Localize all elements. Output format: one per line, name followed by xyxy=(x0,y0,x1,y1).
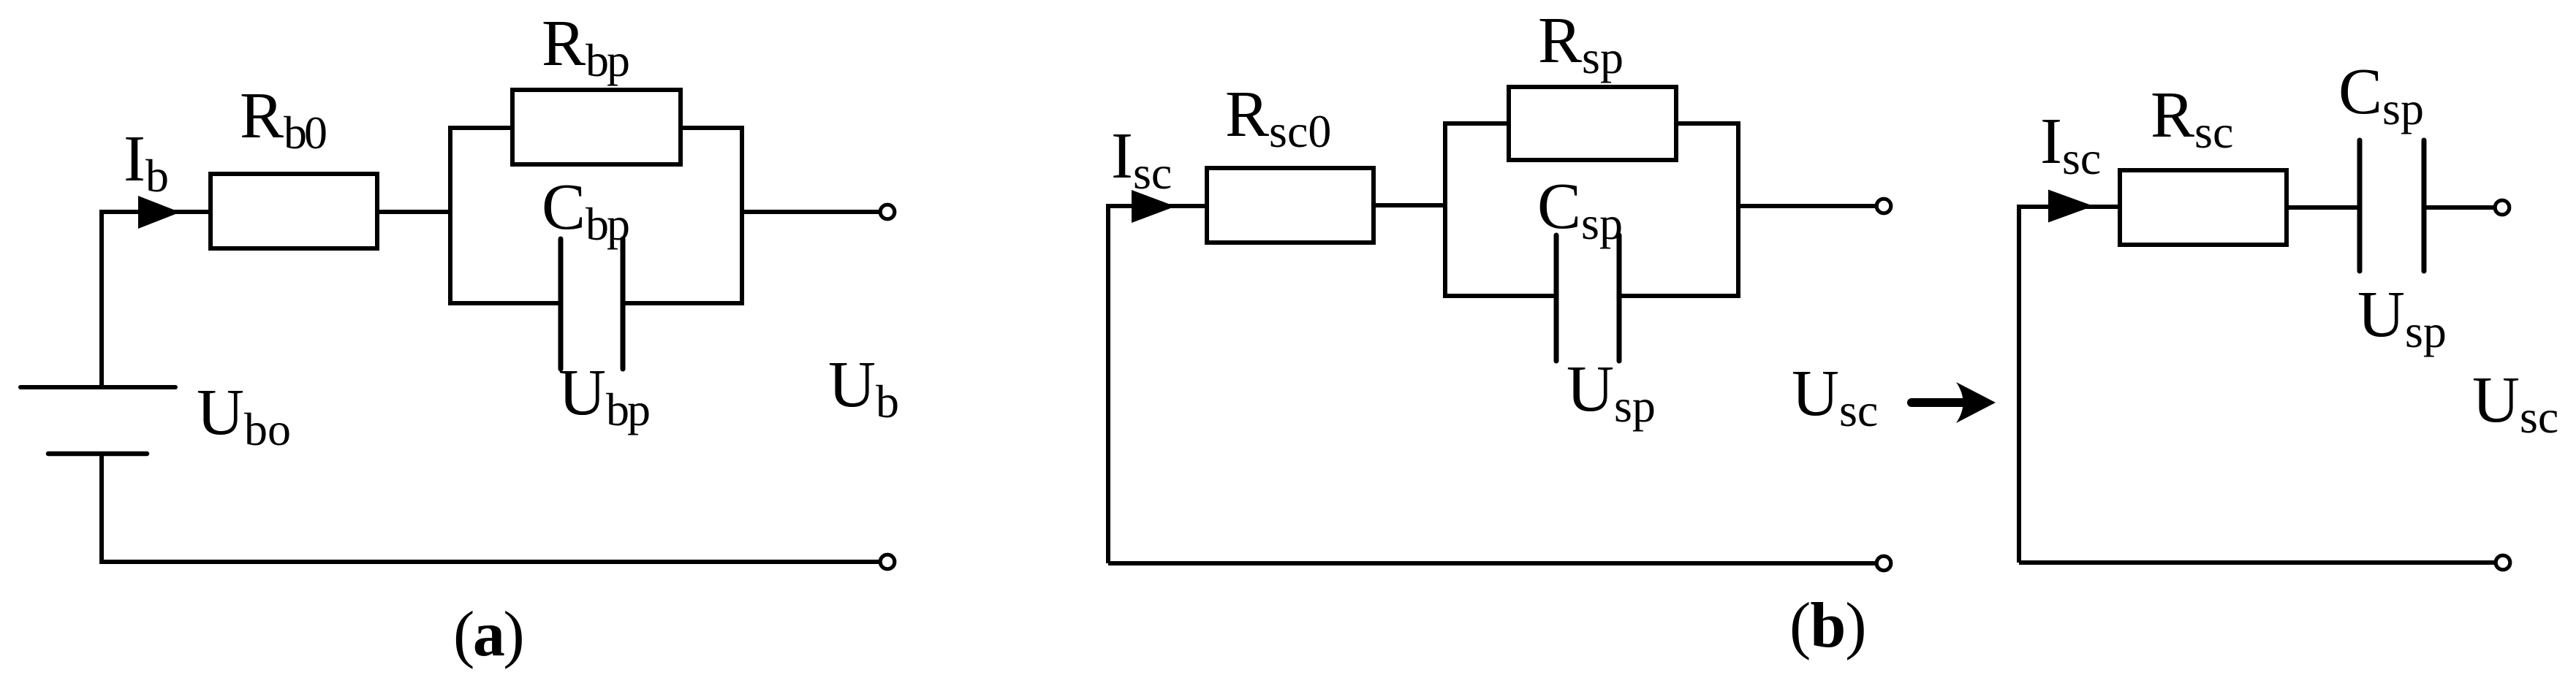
transform arrow between models xyxy=(1912,382,1996,423)
wire: bottom rail right (b) xyxy=(1619,294,1740,298)
node: block left vertical (b) xyxy=(1443,123,1447,296)
resistor Rbp xyxy=(512,90,681,164)
capacitor Csp left plate (b) xyxy=(1554,235,1559,361)
wire: bottom return (b) xyxy=(1108,561,1876,565)
wire: top rail left (b) xyxy=(1443,121,1509,126)
wire: top rail right segment xyxy=(681,126,744,130)
terminal node bottom (a) xyxy=(880,555,895,569)
resistor Rsc0 xyxy=(1207,168,1374,243)
wire: bottom rail left (b) xyxy=(1443,294,1556,298)
wire: bottom return (simplified) xyxy=(2019,560,2496,565)
node: parallel block right vertical xyxy=(740,128,744,303)
capacitor Cbp right plate xyxy=(621,239,626,369)
wire: left vertical (b) xyxy=(1108,206,1207,563)
svg-text:(b): (b) xyxy=(1789,590,1866,661)
terminal node bottom (simplified) xyxy=(2496,555,2510,570)
resistor Rsc xyxy=(2120,170,2287,245)
terminal node top (b) xyxy=(1876,199,1891,213)
wire: top rail right (b) xyxy=(1676,121,1740,126)
resistor Rb0 xyxy=(211,174,377,248)
capacitor Csp left plate (simplified) xyxy=(2357,140,2363,271)
terminal node bottom (b) xyxy=(1876,556,1891,571)
wire: bottom rail right segment xyxy=(623,301,744,305)
wire: bottom rail left segment xyxy=(448,301,561,305)
wire: Rb0 to parallel block xyxy=(377,210,450,214)
current arrow Ib xyxy=(138,196,181,229)
resistor Rsp xyxy=(1509,87,1676,160)
wire: bottom return (a) xyxy=(99,560,880,564)
wire: input top-left corner xyxy=(102,212,211,386)
capacitor Csp right plate (simplified) xyxy=(2422,140,2427,271)
wire: output (b) xyxy=(1738,204,1876,208)
wire: battery to bottom rail xyxy=(99,454,104,564)
terminal node top (simplified) xyxy=(2495,200,2509,215)
wire: top rail left segment xyxy=(448,126,512,130)
wire: output (simplified) xyxy=(2424,205,2495,210)
capacitor Csp right plate (b) xyxy=(1617,235,1622,361)
wire: left vertical (simplified) xyxy=(2019,207,2120,563)
capacitor Cbp left plate xyxy=(558,239,564,369)
node: block right vertical (b) xyxy=(1736,123,1740,296)
terminal node top (a) xyxy=(880,205,895,219)
wire: Rsc to Csp xyxy=(2287,205,2360,210)
svg-text:(a): (a) xyxy=(453,599,523,670)
current arrow Isc (simplified) xyxy=(2048,190,2094,223)
battery Ubo long plate xyxy=(20,385,175,389)
wire: output to terminal xyxy=(742,210,880,214)
node: parallel block left vertical xyxy=(448,128,452,303)
current arrow Isc xyxy=(1132,190,1175,223)
battery Ubo short plate xyxy=(48,452,147,457)
wire: Rsc0 to block xyxy=(1374,203,1445,207)
